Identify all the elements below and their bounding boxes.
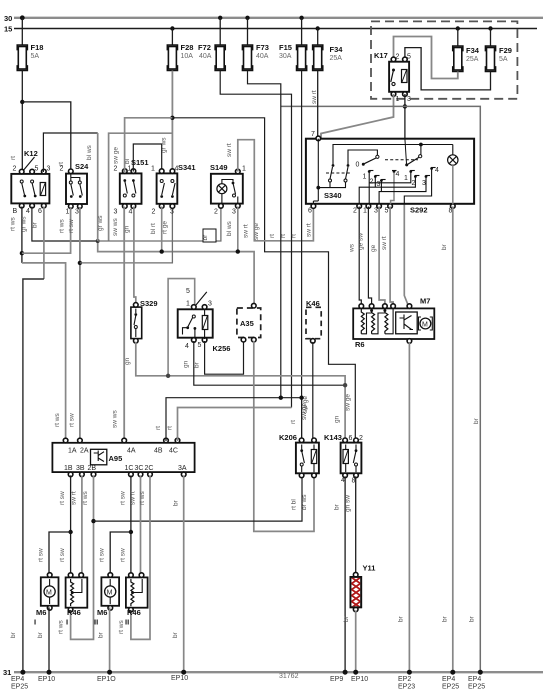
wire F34b stem: [457, 29, 459, 47]
wire M6 II br to ground: [109, 607, 111, 672]
fuse F28: [167, 43, 193, 71]
svg-text:EP4: EP4: [442, 676, 455, 683]
svg-text:br: br: [173, 499, 180, 506]
svg-text:F72: F72: [198, 43, 211, 52]
svg-text:M: M: [46, 590, 52, 597]
wire F28 stem: [171, 29, 173, 46]
wire F18 down to K12 pin2: [21, 71, 23, 174]
svg-text:bl ws: bl ws: [86, 144, 93, 160]
wire A95 3C down to R46 II right pin: [140, 475, 142, 577]
svg-text:rt ge: rt ge: [162, 221, 169, 234]
svg-text:sw rt: sw rt: [381, 236, 388, 250]
svg-text:2: 2: [370, 179, 374, 186]
svg-text:2B: 2B: [88, 465, 97, 472]
rotary 1: [376, 155, 379, 158]
wire F28 branch right sw ge: [172, 118, 355, 442]
svg-text:A95: A95: [109, 454, 123, 463]
svg-text:EP10: EP10: [171, 675, 188, 682]
svg-text:br: br: [442, 615, 449, 622]
svg-text:6: 6: [349, 435, 353, 442]
svg-text:sw rt: sw rt: [130, 491, 137, 505]
svg-text:rt ws: rt ws: [54, 413, 61, 427]
ground node EP1O M6II: [107, 670, 112, 675]
svg-text:br: br: [172, 631, 179, 638]
wire F28 branch to S151 pin2: [125, 118, 173, 173]
svg-text:br: br: [37, 631, 44, 638]
svg-text:EP10: EP10: [38, 676, 55, 683]
svg-text:rt sw: rt sw: [120, 548, 127, 562]
svg-text:gn: gn: [334, 415, 341, 423]
svg-text:rt ws: rt ws: [58, 620, 65, 634]
svg-text:2A: 2A: [80, 448, 89, 455]
svg-text:1C: 1C: [125, 465, 134, 472]
svg-text:15: 15: [4, 25, 12, 34]
svg-text:ge: ge: [370, 244, 377, 252]
svg-text:S329: S329: [140, 299, 158, 308]
svg-text:gr ws: gr ws: [21, 216, 28, 232]
wire S292 pin5 to R6: [390, 207, 393, 309]
svg-text:5: 5: [35, 166, 39, 173]
svg-text:R6: R6: [355, 340, 365, 349]
fuse F34: [313, 45, 344, 71]
svg-text:8: 8: [449, 208, 453, 215]
svg-text:sw rt: sw rt: [311, 90, 318, 104]
relay K256: [178, 288, 231, 353]
wire K256 pin4 gn down right: [194, 341, 345, 385]
wire S292 pin3 to R6: [379, 207, 385, 309]
wire A95 3A br to ground: [183, 475, 185, 672]
wire K12 6 brown down jog to ground: [43, 207, 45, 280]
svg-text:gr ws: gr ws: [161, 137, 168, 153]
wire F18 branch to S24 pin2: [22, 102, 71, 173]
svg-text:2: 2: [359, 435, 363, 442]
svg-text:sw ws: sw ws: [112, 410, 119, 428]
svg-text:M6: M6: [36, 608, 46, 617]
wire K12 4 down and right: [32, 207, 98, 242]
svg-text:II: II: [94, 618, 98, 627]
ground node EP4/EP25 left: [20, 670, 25, 675]
svg-text:rt: rt: [155, 426, 162, 430]
wire A95 3B down to R46 I right pin: [81, 475, 83, 577]
switch S24: [58, 162, 89, 216]
wire br link S149 pin2: [98, 207, 221, 242]
svg-text:4B: 4B: [154, 448, 163, 455]
svg-text:30A: 30A: [279, 53, 292, 60]
wire net bl ws to A35 (horizontal 251.6): [98, 241, 254, 307]
top rail: [333, 144, 453, 146]
bus 30: [4, 14, 543, 23]
svg-text:br: br: [202, 234, 209, 241]
svg-text:1: 1: [242, 166, 246, 173]
svg-text:rt ws: rt ws: [10, 217, 17, 231]
wire S149 pin1 sw rt link to S292 pin6: [238, 140, 314, 241]
svg-text:4A: 4A: [127, 448, 136, 455]
wire S24 pin3 branch to S341 pin3: [80, 207, 172, 263]
svg-text:31762: 31762: [279, 673, 299, 680]
svg-text:EP25: EP25: [11, 684, 28, 691]
svg-text:rt: rt: [167, 426, 174, 430]
svg-text:R46: R46: [67, 608, 81, 617]
switch S149 with lamp: [210, 143, 246, 215]
svg-text:25A: 25A: [466, 56, 479, 63]
wire F73 stem: [247, 18, 249, 45]
svg-text:7: 7: [311, 131, 315, 138]
resistor R46 II: [125, 573, 148, 627]
fuse F18: [17, 43, 43, 71]
svg-text:R46: R46: [127, 608, 141, 617]
svg-text:rt: rt: [10, 156, 17, 160]
svg-text:bl ws: bl ws: [226, 220, 233, 236]
ground node EP10 A95 3A: [181, 670, 186, 675]
valve Y11: [348, 564, 375, 623]
svg-text:3: 3: [47, 166, 51, 173]
svg-text:rt sw: rt sw: [59, 548, 66, 562]
ground node EP10 M6I: [47, 670, 52, 675]
svg-text:3: 3: [75, 209, 79, 216]
svg-text:F18: F18: [31, 43, 44, 52]
wire A95 1C down to R46 II: [130, 475, 132, 577]
wire F29 stem: [490, 29, 492, 47]
wire jumper S151 pin1 to S341 pin1: [133, 144, 161, 172]
svg-text:1: 1: [66, 209, 70, 216]
switch S341: [151, 137, 196, 216]
svg-text:3A: 3A: [178, 465, 187, 472]
svg-text:30: 30: [4, 14, 12, 23]
svg-text:2: 2: [60, 166, 64, 173]
wire K46 down to K206 top right: [312, 342, 314, 442]
svg-text:rt: rt: [269, 234, 276, 238]
wire K143 pin8 gn sw to Y11: [355, 476, 357, 576]
svg-text:rt sw: rt sw: [69, 413, 76, 427]
svg-text:br: br: [398, 615, 405, 622]
motor M: [420, 318, 431, 329]
wire A95 1B down to R46 I: [70, 475, 72, 577]
wire K12 pin3 up over to bl ws drop: [43, 133, 97, 172]
wire K12B stub to A95 1A: [22, 263, 66, 443]
svg-text:4: 4: [129, 209, 133, 216]
svg-text:2: 2: [152, 209, 156, 216]
svg-text:EP1O: EP1O: [97, 676, 116, 683]
wire F15 stem: [301, 18, 303, 45]
svg-text:K17: K17: [374, 51, 388, 60]
wire F72 stem: [219, 18, 221, 45]
svg-text:EP9: EP9: [330, 676, 343, 683]
svg-text:sw rt: sw rt: [71, 491, 78, 505]
svg-text:K206: K206: [279, 433, 297, 442]
node S24 pin3 junction: [78, 261, 82, 265]
S340 contacts: [330, 182, 346, 188]
svg-text:B: B: [13, 208, 18, 215]
svg-text:6: 6: [308, 208, 312, 215]
svg-text:F28: F28: [181, 43, 194, 52]
svg-text:M7: M7: [420, 297, 430, 306]
svg-text:K256: K256: [213, 344, 231, 353]
svg-text:A35: A35: [240, 319, 254, 328]
wire Y11 br to ground EP10: [355, 610, 357, 672]
svg-text:10A: 10A: [181, 53, 194, 60]
wire A35 right pin down to K206 row: [254, 341, 314, 532]
node junction F18 on bus 30: [20, 15, 25, 20]
fuse F29: [485, 46, 512, 72]
wire K256 pin5 br to A35: [205, 339, 244, 374]
svg-text:sw rt: sw rt: [226, 143, 233, 157]
svg-text:5A: 5A: [31, 53, 40, 60]
svg-text:5: 5: [186, 288, 190, 295]
fuse F72: [198, 43, 225, 71]
fuse F15: [279, 43, 307, 71]
svg-text:S341: S341: [178, 163, 196, 172]
wire A95 4B rt up right to K206 net: [166, 398, 302, 441]
svg-text:br: br: [469, 615, 476, 622]
staircase wiring to pins: [391, 173, 394, 204]
svg-text:1: 1: [363, 174, 367, 181]
svg-text:rt ws: rt ws: [59, 219, 66, 233]
svg-text:1A: 1A: [68, 448, 77, 455]
node S149 pin3 junction: [236, 249, 240, 253]
svg-text:5: 5: [407, 54, 411, 61]
svg-text:br ws: br ws: [301, 494, 308, 510]
svg-text:I: I: [34, 618, 36, 627]
wire K256 pin1 feed bridge: [168, 279, 195, 376]
svg-text:K12: K12: [24, 149, 38, 158]
control unit A35 dashed: [237, 303, 261, 342]
svg-text:3: 3: [407, 96, 411, 103]
motor M6 II: [94, 573, 119, 627]
wire A95 2B down, dot, to R46 I bottom: [71, 475, 94, 639]
svg-text:rt ws: rt ws: [118, 620, 125, 634]
svg-text:sw rt: sw rt: [306, 223, 313, 237]
svg-text:M: M: [107, 590, 113, 597]
wire F15 branch horizontal to right down to ground (dark then gray): [281, 106, 481, 672]
svg-text:1B: 1B: [64, 465, 73, 472]
svg-text:gn sw: gn sw: [345, 495, 352, 512]
relay K206: [279, 396, 319, 478]
wire S24 pin1 riser to K12 B dot: [22, 207, 71, 253]
ground node EP9: [343, 670, 348, 675]
svg-text:br: br: [441, 243, 448, 250]
svg-text:Y11: Y11: [363, 564, 376, 573]
wire gr ws drop linked to F28 column: [109, 133, 173, 241]
relay K17: [374, 51, 411, 103]
svg-text:2: 2: [353, 208, 357, 215]
svg-text:1: 1: [396, 96, 400, 103]
node F18 branch junction: [20, 100, 24, 104]
svg-text:F73: F73: [256, 43, 269, 52]
svg-text:F29: F29: [499, 46, 512, 55]
svg-text:br: br: [10, 631, 17, 638]
wire A95 2B net to K206 bottom left: [94, 476, 303, 521]
node junction F28 on bus 15: [170, 26, 174, 30]
wire A95 2C down to R46 II bottom: [131, 475, 150, 639]
svg-text:sw rt: sw rt: [243, 224, 250, 238]
svg-text:rt sw: rt sw: [38, 548, 45, 562]
wire branch to M6 I: [49, 532, 71, 577]
switch S329: [131, 299, 158, 343]
svg-text:1: 1: [128, 166, 132, 173]
wire A95 4C rt up right: [178, 408, 292, 442]
svg-text:br: br: [334, 503, 341, 510]
svg-text:5: 5: [385, 208, 389, 215]
wire S149 pin3 down: [237, 207, 239, 252]
wire M7 bottom br to ground: [408, 342, 410, 672]
svg-text:EP4: EP4: [468, 676, 481, 683]
wire rt vertical 2 from F72: [220, 71, 291, 408]
wire S292 pin1 to R6: [368, 207, 371, 309]
node K12 B branch: [20, 251, 24, 255]
wire K17 pin2 to F34b (gray): [394, 37, 458, 79]
wire S149 pin2 br label boxed: [202, 229, 216, 242]
svg-text:3: 3: [170, 209, 174, 216]
svg-text:5: 5: [198, 342, 202, 349]
blower resistor R6 and motor M7 box: [353, 297, 434, 350]
wire F34 stem: [317, 29, 319, 46]
svg-text:F15: F15: [279, 43, 292, 52]
svg-text:K143: K143: [324, 433, 342, 442]
wire K17 pin1 to S292 pin7 (gray, diagonal): [321, 94, 394, 139]
svg-text:I: I: [66, 618, 68, 627]
bus 31: [3, 668, 543, 677]
svg-text:EP2: EP2: [398, 676, 411, 683]
fuse F73: [242, 43, 269, 71]
lamp in S292: [448, 155, 458, 165]
svg-text:gn: gn: [183, 360, 190, 368]
svg-text:EP25: EP25: [442, 684, 459, 691]
heater control unit S292 box: [306, 131, 474, 215]
svg-text:ge sw: ge sw: [358, 233, 365, 250]
relay K12: [10, 149, 51, 215]
svg-text:3C: 3C: [135, 465, 144, 472]
svg-text:3: 3: [114, 209, 118, 216]
wire K17 pin5 to F29 (dark): [405, 48, 491, 90]
wire S151 pin4 down to S329: [134, 207, 136, 307]
switch S151: [113, 147, 149, 216]
wire S292 pin8 br to ground: [452, 207, 454, 673]
svg-text:1: 1: [186, 301, 190, 308]
svg-text:sw ge: sw ge: [302, 396, 309, 413]
svg-text:sw ws: sw ws: [112, 218, 119, 236]
svg-text:3: 3: [232, 209, 236, 216]
svg-text:sw ge: sw ge: [345, 394, 352, 411]
node K17 pin3 junction: [403, 104, 407, 108]
svg-text:EP4: EP4: [11, 676, 24, 683]
svg-text:M: M: [422, 322, 428, 329]
wire F34 swrt down to pin7: [317, 71, 319, 139]
wire K206 top left drop: [301, 398, 303, 442]
svg-text:4: 4: [341, 477, 345, 484]
svg-text:EP25: EP25: [468, 684, 485, 691]
svg-text:4: 4: [175, 166, 179, 173]
wire K17 pin3 down (dark): [404, 94, 406, 139]
svg-text:S340: S340: [324, 191, 342, 200]
svg-text:1: 1: [404, 175, 408, 182]
wire F28 down to junction: [171, 71, 173, 174]
node junction F72 on bus 30: [218, 16, 222, 20]
wire F18 stem: [21, 18, 23, 45]
svg-text:2: 2: [214, 209, 218, 216]
wire K143 pin4 br to ground EP9: [344, 476, 346, 672]
rotary 2: [420, 145, 422, 155]
svg-text:br: br: [343, 615, 350, 622]
svg-text:sw ge: sw ge: [113, 147, 120, 164]
wire rt vertical 1 from F73: [248, 71, 281, 398]
relay K46 dashed: [306, 299, 321, 343]
wire K12 B down: [21, 207, 23, 263]
svg-text:rt: rt: [280, 234, 287, 238]
wire S341 pin2 down: [161, 207, 163, 252]
svg-text:5A: 5A: [499, 56, 508, 63]
svg-text:4: 4: [26, 208, 30, 215]
node junction F29 on bus 15: [488, 26, 492, 30]
node junction F73 on bus 30: [245, 16, 249, 20]
resistor R46 I: [66, 573, 88, 627]
svg-text:3B: 3B: [76, 465, 85, 472]
internal pin7 rail: [317, 139, 319, 201]
svg-text:rt sw: rt sw: [59, 491, 66, 505]
svg-text:3: 3: [374, 208, 378, 215]
fuse F34 in box: [453, 46, 480, 72]
svg-text:25A: 25A: [330, 55, 343, 62]
svg-text:4: 4: [185, 343, 189, 350]
svg-text:40A: 40A: [256, 53, 269, 60]
svg-text:1: 1: [151, 166, 155, 173]
svg-text:EP23: EP23: [398, 684, 415, 691]
transistor box: [396, 312, 418, 334]
svg-text:F34: F34: [466, 46, 480, 55]
svg-text:3: 3: [422, 180, 426, 187]
resistor zigzags: [361, 308, 364, 333]
svg-text:br: br: [194, 361, 201, 368]
svg-text:8: 8: [352, 478, 356, 485]
wire M6 I br to ground: [48, 607, 50, 672]
svg-text:4: 4: [435, 167, 439, 174]
svg-text:1: 1: [363, 208, 367, 215]
svg-text:2: 2: [396, 54, 400, 61]
svg-text:rt ws: rt ws: [82, 491, 89, 505]
ground node EP10 Y11: [353, 670, 358, 675]
motor M6 I: [34, 573, 59, 627]
svg-text:S24: S24: [75, 162, 89, 171]
wire rt vertical 3 from F15: [301, 71, 303, 443]
svg-text:S149: S149: [210, 163, 228, 172]
wire S151 pin3 down to A95 4A: [123, 207, 125, 443]
svg-text:gr ws: gr ws: [97, 215, 104, 231]
svg-text:M6: M6: [97, 608, 107, 617]
svg-text:3: 3: [208, 301, 212, 308]
ground node EP2/EP23: [407, 670, 412, 675]
svg-text:F34: F34: [330, 45, 344, 54]
svg-text:II: II: [125, 618, 129, 627]
svg-text:gn: gn: [124, 357, 131, 365]
svg-text:rt bl: rt bl: [291, 499, 298, 510]
node junction F34b on bus 15: [456, 26, 460, 30]
svg-text:rt: rt: [290, 420, 297, 424]
svg-text:br: br: [98, 631, 105, 638]
svg-text:rt sw: rt sw: [99, 548, 106, 562]
svg-text:S292: S292: [410, 206, 428, 215]
svg-text:bl rt: bl rt: [150, 223, 157, 234]
svg-text:br: br: [32, 221, 39, 228]
svg-text:rt ws: rt ws: [139, 491, 146, 505]
svg-text:4C: 4C: [169, 448, 178, 455]
svg-text:0: 0: [356, 162, 360, 169]
control unit A95: [52, 438, 194, 477]
node S341 pin2 on 253 line: [160, 249, 164, 253]
wire S292 pin2 to R6: [359, 207, 361, 309]
node F28 junction: [170, 116, 174, 120]
svg-text:4: 4: [396, 171, 400, 178]
svg-text:EP10: EP10: [351, 676, 368, 683]
relay K143: [324, 394, 363, 485]
